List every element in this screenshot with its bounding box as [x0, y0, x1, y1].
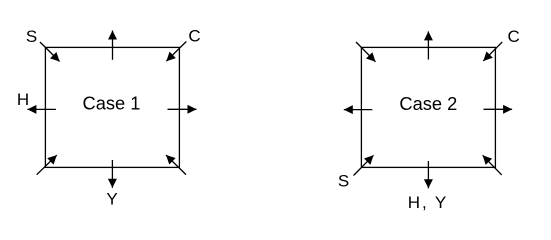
label C (square 1 top-right) — [188, 27, 200, 46]
arrow inward at square 1 bottom-right corner — [166, 155, 186, 175]
arrow left (square 1 left edge) — [27, 108, 56, 110]
square Case 2 — [361, 47, 495, 167]
arrow up (square 1 top edge) — [112, 31, 114, 60]
label S (square 2 bottom-left) — [338, 172, 349, 191]
label Case 2 — [399, 93, 457, 114]
label Case 1 — [83, 93, 141, 114]
arrow inward at square 2 bottom-right corner — [483, 155, 502, 175]
svg-text:C: C — [508, 27, 520, 46]
arrow up (square 2 top edge) — [427, 31, 429, 59]
svg-text:S: S — [26, 27, 37, 46]
arrow down (square 1 bottom edge) — [111, 160, 113, 188]
square Case 1 — [45, 47, 179, 167]
arrow inward at square 2 top-right corner — [483, 42, 502, 61]
svg-text:S: S — [338, 172, 349, 191]
svg-text:Y: Y — [106, 190, 117, 209]
label C (square 2 top-right) — [508, 27, 520, 46]
arrow right (square 1 right edge) — [168, 108, 197, 110]
arrow inward at square 2 top-left corner — [356, 42, 376, 62]
arrow inward at square 1 top-right corner — [166, 42, 186, 62]
svg-text:Case 1: Case 1 — [83, 93, 141, 114]
label H, Y (square 2 bottom) — [408, 193, 447, 212]
svg-text:Case 2: Case 2 — [399, 93, 457, 114]
label H (square 1 left) — [17, 90, 29, 109]
label Y (square 1 bottom) — [106, 190, 117, 209]
svg-text:C: C — [188, 27, 200, 46]
arrow inward at square 1 bottom-left corner — [37, 155, 57, 175]
svg-text:H: H — [17, 90, 29, 109]
arrow right (square 2 right edge) — [484, 108, 513, 110]
label S (square 1 top-left) — [26, 27, 37, 46]
arrow inward at square 2 bottom-left corner — [354, 155, 374, 175]
arrow left (square 2 left edge) — [344, 109, 373, 111]
arrow down (square 2 bottom edge) — [427, 161, 429, 188]
svg-text:H, Y: H, Y — [408, 193, 447, 212]
arrow inward at square 1 top-left corner — [40, 42, 60, 62]
